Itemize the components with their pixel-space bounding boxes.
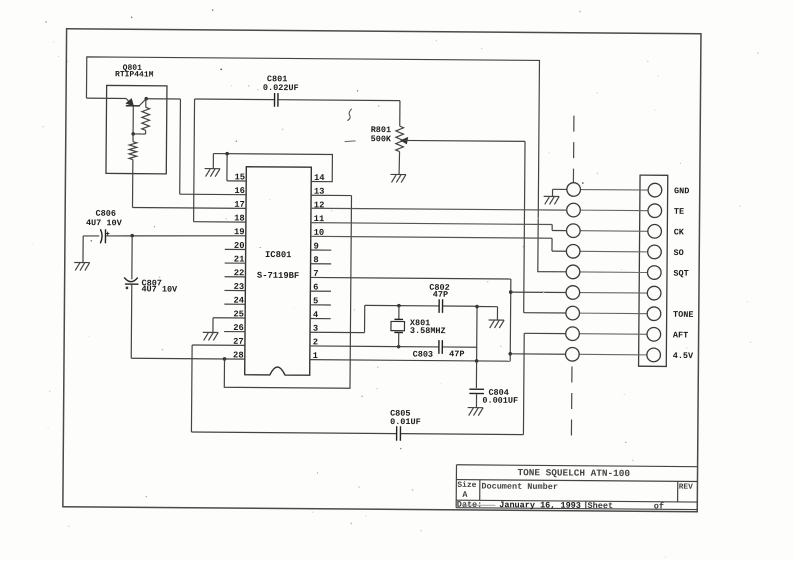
svg-text:CK: CK	[674, 227, 685, 237]
svg-text:of: of	[654, 501, 664, 511]
svg-text:TE: TE	[674, 207, 684, 217]
svg-text:January 16, 1993: January 16, 1993	[499, 500, 581, 511]
svg-text:0.022UF: 0.022UF	[263, 83, 299, 93]
svg-text:3.58MHZ: 3.58MHZ	[410, 326, 446, 336]
svg-text:GND: GND	[674, 186, 689, 196]
svg-text:Size: Size	[457, 481, 476, 490]
svg-text:47P: 47P	[433, 290, 448, 300]
svg-text:12: 12	[314, 200, 325, 210]
svg-text:SQT: SQT	[673, 269, 688, 279]
svg-text:RTIP441M: RTIP441M	[115, 70, 154, 79]
svg-text:SO: SO	[674, 248, 684, 258]
svg-text:Document Number: Document Number	[481, 481, 558, 492]
svg-text:500K: 500K	[371, 134, 392, 144]
svg-text:0.01UF: 0.01UF	[390, 417, 421, 427]
svg-text:4U7 10V: 4U7 10V	[86, 218, 123, 228]
svg-text:47P: 47P	[449, 349, 464, 359]
svg-text:IC801: IC801	[265, 250, 291, 260]
svg-text:S-7119BF: S-7119BF	[257, 271, 299, 281]
svg-text:TONE SQUELCH ATN-100: TONE SQUELCH ATN-100	[517, 467, 630, 479]
svg-text:TONE: TONE	[673, 310, 693, 320]
svg-text:C803: C803	[413, 350, 433, 360]
svg-text:REV: REV	[679, 484, 693, 492]
svg-text:4U7 10V: 4U7 10V	[141, 284, 178, 294]
svg-text:Sheet: Sheet	[588, 501, 614, 511]
svg-text:AFT: AFT	[673, 330, 688, 340]
svg-text:0.001UF: 0.001UF	[482, 396, 518, 406]
svg-text:4.5V: 4.5V	[673, 351, 694, 361]
